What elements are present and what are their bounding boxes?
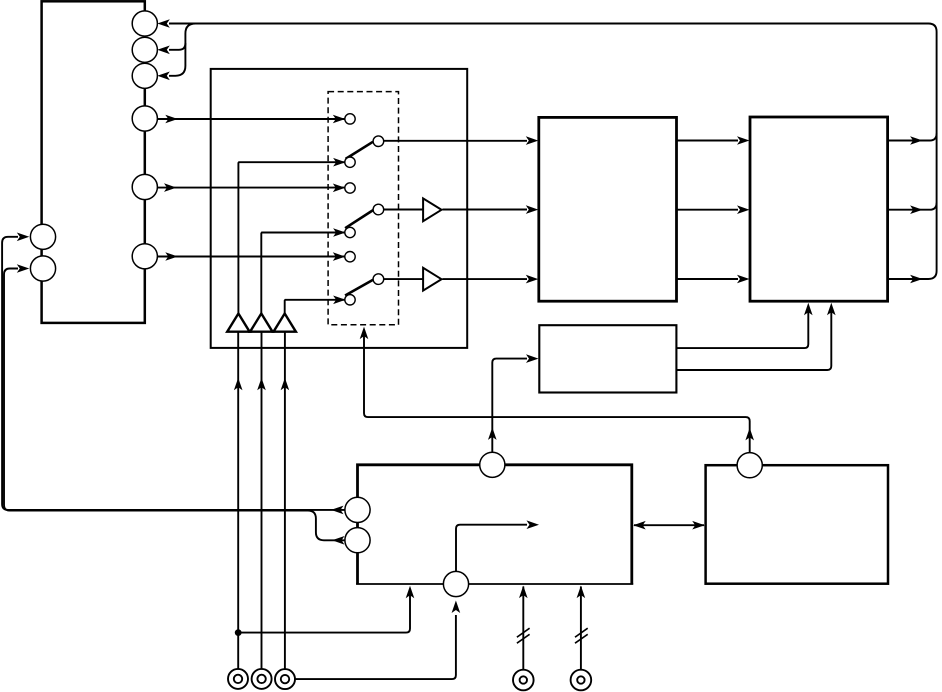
wire switch row 1 output to U3 input 1 xyxy=(383,140,527,142)
wire internal U6 arrow from node P14 xyxy=(456,525,527,572)
block U6 bottom-middle controller xyxy=(358,465,632,585)
wire U5 out1 to U4 bottom pin 1 xyxy=(676,308,808,348)
node P14 on U6 bottom xyxy=(443,571,468,596)
block U5 small control box xyxy=(539,325,676,392)
switch SW2 contact B2 xyxy=(345,227,355,237)
block U2 switch matrix box xyxy=(211,69,468,348)
dashed switch-group enclosure xyxy=(328,92,398,325)
wire U3 out3 to U4 in3 xyxy=(677,278,739,280)
amp T1 (up triangle) xyxy=(227,314,249,332)
wire input line 3 from node P6 to contact A3 xyxy=(158,256,345,258)
wire input line 1 from node P4 to contact A1 xyxy=(158,118,345,120)
wire top feedback bus from U4 out3 to node P1 xyxy=(169,24,937,280)
block U3 processor A xyxy=(539,117,677,301)
wire U4 out2 joining bus xyxy=(888,203,937,210)
buffer A2 xyxy=(423,268,441,291)
wire switch row 3 output to buffer A2 xyxy=(383,278,423,280)
node P3 xyxy=(132,63,157,88)
node P5 xyxy=(132,174,157,199)
switch SW1 contact A1 xyxy=(345,114,355,124)
wire from J1 up through amp T1 to contact B1 xyxy=(237,332,239,669)
wire sub-branch to node P2 xyxy=(169,43,185,50)
terminal J1 xyxy=(228,669,248,689)
node P10 on U6 top xyxy=(480,452,505,477)
block U7 bottom-right memory xyxy=(706,465,888,584)
node P12 on U6 left xyxy=(345,497,370,522)
switch SW2 contact A2 xyxy=(345,183,355,193)
node PA on U1 left edge xyxy=(30,224,55,249)
mid-wire up arrow on J1 riser xyxy=(234,378,243,391)
wire J1 branch to U6 bottom xyxy=(238,591,410,633)
wire buffer A2 output to U3 input 3 xyxy=(442,278,527,280)
terminal J3 xyxy=(275,669,295,689)
wire from J3 up through amp T3 to contact B3 xyxy=(284,332,286,669)
switch SW2 blade xyxy=(345,210,373,228)
junction dot on J1 wire xyxy=(235,629,242,636)
mid-wire up arrow on J3 riser xyxy=(281,378,290,391)
wire node P11 (U7 top) to dashed group control input xyxy=(364,332,750,453)
wire buffer A1 output to U3 input 2 xyxy=(442,209,527,211)
amp T3 (up triangle) xyxy=(274,314,296,332)
wire U4 out1 joining bus xyxy=(888,134,937,141)
wire from J2 up through amp T2 to contact B2 xyxy=(261,332,263,669)
switch SW1 contact B1 xyxy=(345,157,355,167)
wire J3 branch to node P14 xyxy=(295,615,456,679)
wire node P10 (U6 top) to U5 input xyxy=(492,359,527,453)
wire feedback from node P13 to node PB xyxy=(4,269,345,541)
switch SW1 blade xyxy=(346,142,373,159)
buffer A1 xyxy=(423,198,441,221)
block U1 tuner/front-end (tall left box) xyxy=(42,1,145,323)
node P1 on U1 right edge xyxy=(132,11,157,36)
terminal J5 xyxy=(571,670,592,691)
switch SW3 blade xyxy=(345,280,373,296)
wire input line 2 from node P5 to contact A2 xyxy=(158,187,345,189)
amp T2 (up triangle) xyxy=(250,314,272,332)
node PB on U1 left edge xyxy=(30,256,55,281)
switch SW1 common C1 xyxy=(373,136,384,147)
terminal J4 xyxy=(513,670,534,691)
wire bidirectional U6 to U7 xyxy=(634,524,704,526)
switch SW3 common C3 xyxy=(373,274,384,285)
wire J4 to U6 bottom with break marks xyxy=(522,587,524,670)
switch SW3 contact A3 xyxy=(345,252,355,262)
block U4 processor B xyxy=(750,117,888,301)
terminal J2 xyxy=(252,669,272,689)
wire J5 to U6 bottom with break marks xyxy=(580,587,582,670)
node P2 xyxy=(132,37,157,62)
node P13 on U6 left xyxy=(345,528,370,553)
wire bus branch down to node P3 xyxy=(169,24,196,76)
node P4 xyxy=(132,106,157,131)
wire U3 out1 to U4 in1 xyxy=(677,140,739,142)
wire switch row 2 output to buffer A1 xyxy=(383,209,423,211)
switch SW3 contact B3 xyxy=(345,295,355,305)
wire U5 out2 to U4 bottom pin 2 xyxy=(676,308,831,370)
wire U3 out2 to U4 in2 xyxy=(677,209,739,211)
switch SW2 common C2 xyxy=(373,204,384,215)
mid-wire up arrow on J2 riser xyxy=(257,378,266,391)
node P6 xyxy=(132,244,157,269)
node P11 on U7 top xyxy=(737,453,762,478)
wire feedback from node P12 to node PA xyxy=(2,237,345,510)
